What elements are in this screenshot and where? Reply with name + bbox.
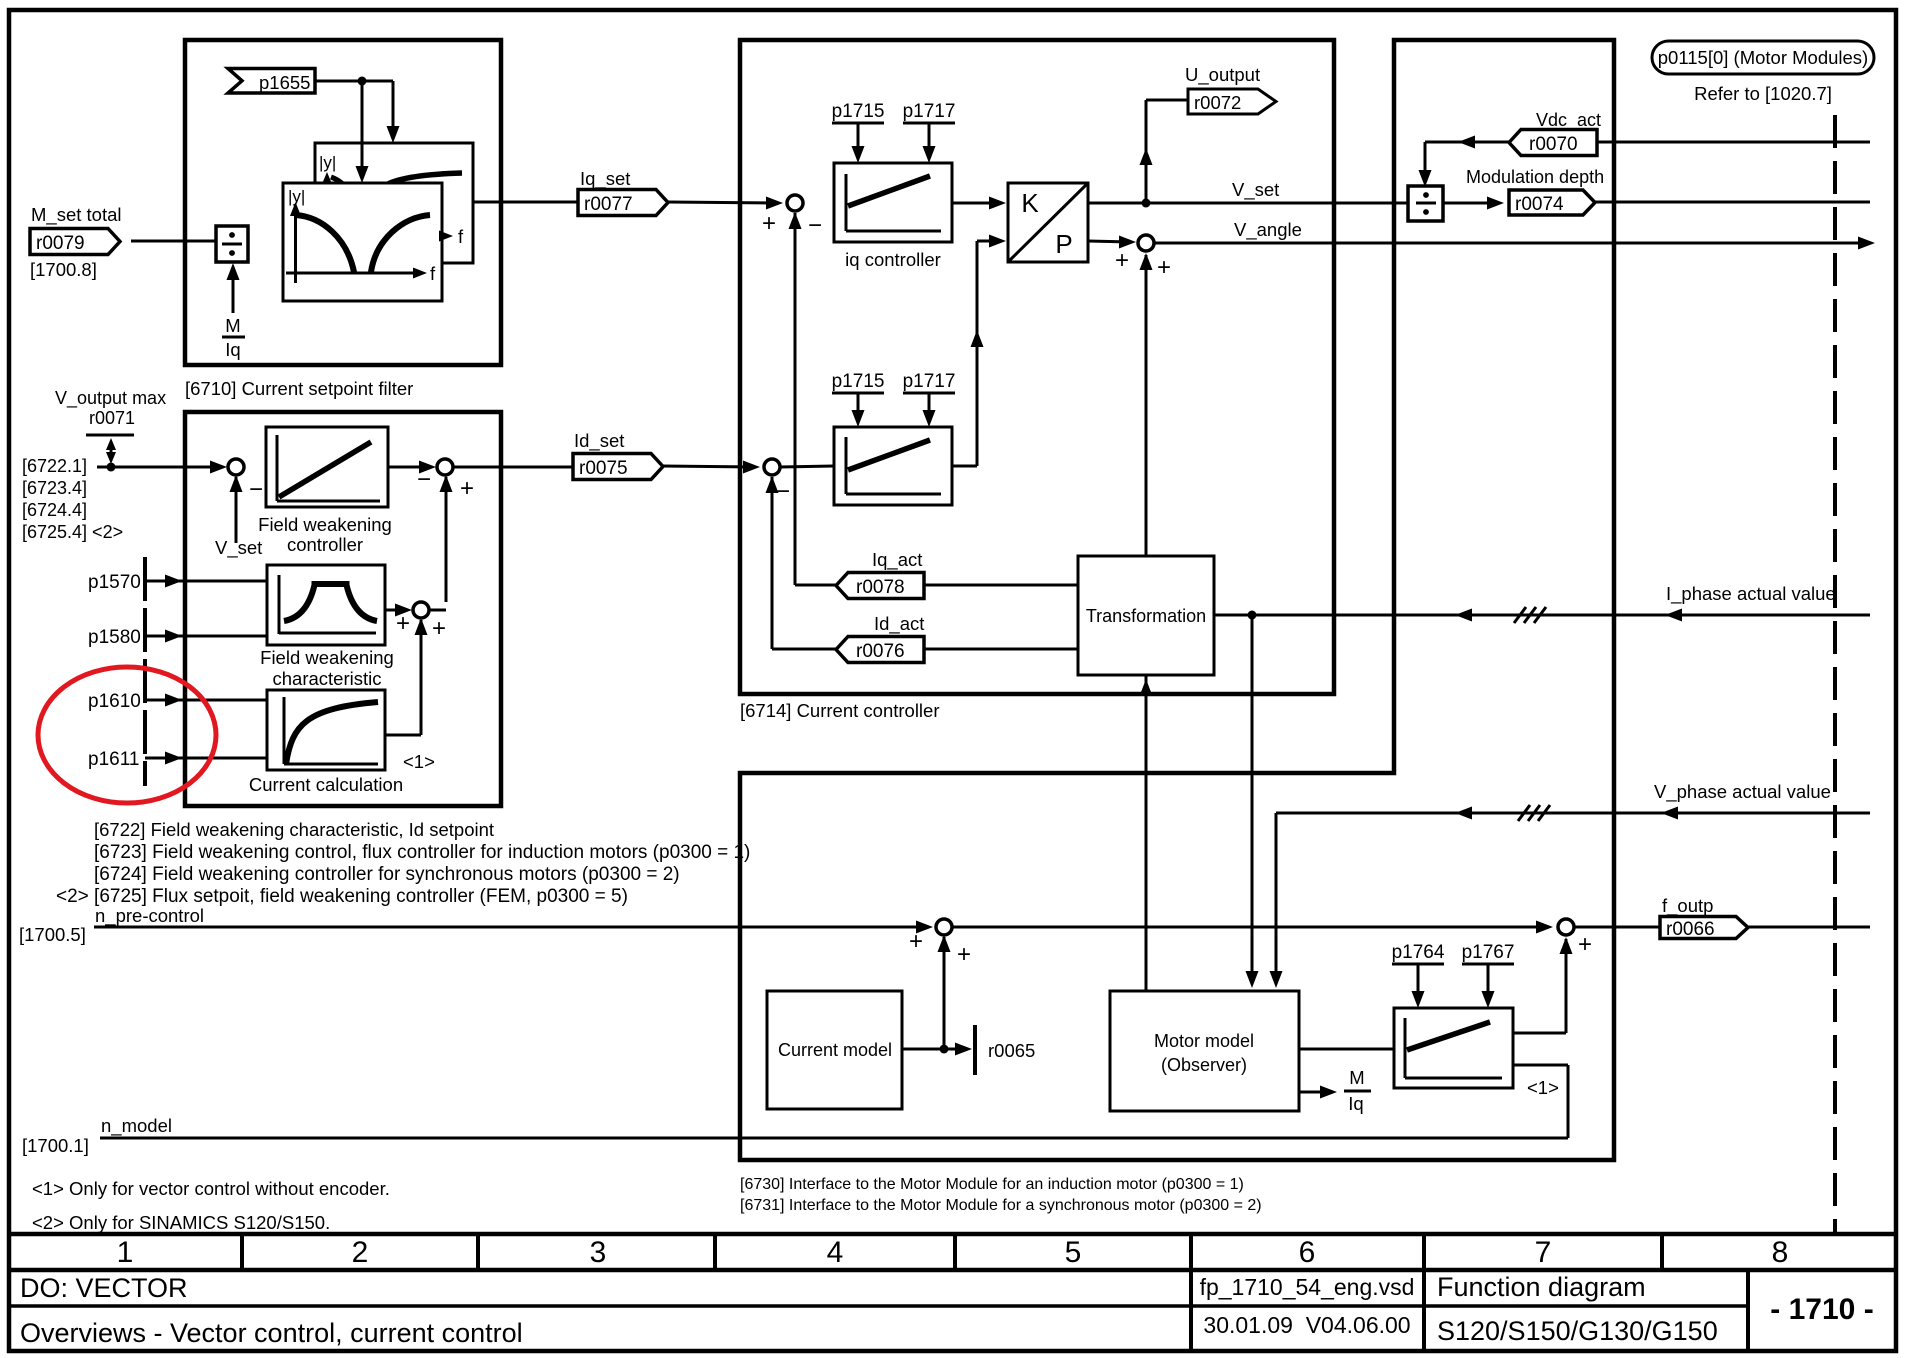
svg-text:[6722.1]: [6722.1]: [22, 456, 87, 476]
svg-text:5: 5: [1065, 1236, 1082, 1269]
svg-text:f: f: [458, 226, 464, 247]
svg-text:<1> Only for vector control wi: <1> Only for vector control without enco…: [32, 1178, 390, 1199]
svg-text:Id_act: Id_act: [874, 613, 924, 635]
svg-text:Overviews - Vector control, cu: Overviews - Vector control, current cont…: [20, 1318, 523, 1348]
svg-text:V_output max: V_output max: [55, 388, 166, 409]
svg-text:p1717: p1717: [903, 371, 956, 392]
svg-text:p1764: p1764: [1392, 942, 1445, 963]
svg-text:iq controller: iq controller: [845, 249, 941, 270]
svg-text:p0115[0] (Motor Modules): p0115[0] (Motor Modules): [1658, 47, 1868, 68]
svg-text:<1>: <1>: [1527, 1077, 1559, 1098]
svg-text:[6724] Field weakening control: [6724] Field weakening controller for sy…: [94, 864, 680, 885]
svg-text:M: M: [225, 315, 240, 336]
svg-text:Field weakening: Field weakening: [258, 514, 392, 535]
svg-text:f: f: [430, 263, 436, 284]
svg-text:V_phase actual value: V_phase actual value: [1654, 781, 1831, 803]
svg-text:<2> [6725] Flux setpoit, field: <2> [6725] Flux setpoit, field weakening…: [56, 886, 628, 907]
svg-text:|y|: |y|: [288, 187, 305, 206]
svg-text:[6725.4] <2>: [6725.4] <2>: [22, 522, 123, 542]
svg-text:[6723.4]: [6723.4]: [22, 478, 87, 498]
svg-text:p1611: p1611: [88, 749, 139, 770]
svg-text:fp_1710_54_eng.vsd: fp_1710_54_eng.vsd: [1200, 1274, 1415, 1300]
svg-text:p1717: p1717: [903, 101, 956, 122]
svg-text:−: −: [808, 212, 822, 239]
svg-text:+: +: [762, 210, 776, 237]
svg-text:[1700.5]: [1700.5]: [19, 924, 86, 945]
svg-text:+: +: [396, 610, 410, 637]
svg-text:Current model: Current model: [778, 1040, 892, 1060]
svg-text:[1700.8]: [1700.8]: [30, 259, 97, 280]
svg-text:Modulation depth: Modulation depth: [1466, 167, 1604, 187]
svg-text:p1610: p1610: [88, 691, 141, 712]
svg-text:30.01.09 V04.06.00: 30.01.09 V04.06.00: [1203, 1312, 1410, 1338]
svg-text:<2> Only for SINAMICS S120/S15: <2> Only for SINAMICS S120/S150.: [32, 1212, 330, 1233]
svg-text:r0070: r0070: [1529, 134, 1578, 155]
svg-text:r0079: r0079: [36, 233, 85, 254]
svg-text:V_set: V_set: [1232, 179, 1279, 201]
svg-text:[1700.1]: [1700.1]: [22, 1135, 89, 1156]
svg-text:r0065: r0065: [988, 1040, 1035, 1061]
svg-text:+: +: [460, 475, 474, 502]
svg-text:<1>: <1>: [403, 751, 435, 772]
svg-text:U_output: U_output: [1185, 64, 1260, 86]
svg-text:Iq_set: Iq_set: [580, 168, 630, 190]
svg-text:+: +: [1578, 931, 1592, 958]
svg-text:r0077: r0077: [584, 194, 633, 215]
svg-text:−: −: [249, 476, 263, 503]
svg-text:n_pre-control: n_pre-control: [95, 905, 204, 927]
svg-text:Function diagram: Function diagram: [1437, 1272, 1646, 1302]
svg-text:3: 3: [590, 1236, 607, 1269]
svg-text:+: +: [432, 615, 446, 642]
svg-text:4: 4: [827, 1236, 844, 1269]
svg-text:characteristic: characteristic: [273, 668, 382, 689]
svg-text:+: +: [957, 941, 971, 968]
svg-text:7: 7: [1535, 1236, 1552, 1269]
svg-text:p1715: p1715: [832, 371, 885, 392]
svg-text:[6730] Interface to the Motor: [6730] Interface to the Motor Module for…: [740, 1176, 1244, 1193]
svg-text:(Observer): (Observer): [1161, 1055, 1247, 1075]
svg-text:6: 6: [1299, 1236, 1316, 1269]
svg-text:Iq: Iq: [225, 339, 240, 360]
svg-text:P: P: [1055, 229, 1072, 259]
svg-text:r0071: r0071: [89, 408, 135, 428]
svg-text:[6731] Interface to the Motor: [6731] Interface to the Motor Module for…: [740, 1197, 1262, 1214]
svg-text:8: 8: [1772, 1236, 1789, 1269]
svg-text:2: 2: [352, 1236, 369, 1269]
svg-text:−: −: [776, 478, 790, 505]
svg-text:M_set total: M_set total: [31, 204, 122, 226]
svg-text:p1767: p1767: [1462, 942, 1515, 963]
svg-text:[6722] Field weakening charact: [6722] Field weakening characteristic, I…: [94, 819, 494, 840]
svg-text:p1655: p1655: [259, 72, 310, 93]
svg-text:+: +: [1157, 254, 1171, 281]
svg-text:S120/S150/G130/G150: S120/S150/G130/G150: [1437, 1316, 1718, 1346]
svg-text:|y|: |y|: [319, 153, 336, 172]
svg-text:Id_set: Id_set: [574, 430, 624, 452]
svg-text:Current calculation: Current calculation: [249, 774, 403, 795]
svg-text:p1580: p1580: [88, 627, 141, 648]
svg-text:r0066: r0066: [1666, 919, 1715, 940]
svg-text:p1715: p1715: [832, 101, 885, 122]
svg-text:V_set: V_set: [215, 537, 262, 559]
svg-text:K: K: [1021, 188, 1039, 218]
svg-text:p1570: p1570: [88, 572, 141, 593]
svg-text:+: +: [1115, 247, 1129, 274]
svg-text:DO: VECTOR: DO: VECTOR: [20, 1273, 188, 1303]
svg-text:[6710] Current setpoint filter: [6710] Current setpoint filter: [185, 378, 413, 399]
svg-text:r0076: r0076: [856, 641, 905, 662]
svg-text:- 1710 -: - 1710 -: [1770, 1293, 1873, 1326]
svg-text:Motor model: Motor model: [1154, 1031, 1254, 1051]
svg-text:r0072: r0072: [1194, 92, 1241, 113]
svg-text:1: 1: [117, 1236, 134, 1269]
svg-text:[6723] Field weakening control: [6723] Field weakening control, flux con…: [94, 842, 750, 863]
svg-text:M: M: [1349, 1067, 1364, 1088]
svg-text:V_angle: V_angle: [1234, 219, 1302, 241]
svg-text:Iq_act: Iq_act: [872, 549, 922, 571]
svg-text:Field weakening: Field weakening: [260, 647, 394, 668]
svg-text:r0075: r0075: [579, 458, 628, 479]
svg-text:Transformation: Transformation: [1086, 606, 1206, 626]
svg-text:f_outp: f_outp: [1662, 895, 1713, 917]
svg-text:[6724.4]: [6724.4]: [22, 500, 87, 520]
svg-text:Iq: Iq: [1348, 1093, 1363, 1114]
svg-text:n_model: n_model: [101, 1115, 172, 1137]
svg-text:[6714] Current controller: [6714] Current controller: [740, 700, 940, 721]
svg-text:+: +: [909, 928, 923, 955]
svg-text:−: −: [417, 466, 431, 493]
svg-text:I_phase actual value: I_phase actual value: [1666, 583, 1836, 605]
svg-text:Refer to [1020.7]: Refer to [1020.7]: [1694, 83, 1832, 104]
svg-text:r0074: r0074: [1515, 194, 1564, 215]
svg-text:r0078: r0078: [856, 577, 905, 598]
svg-text:controller: controller: [287, 534, 363, 555]
